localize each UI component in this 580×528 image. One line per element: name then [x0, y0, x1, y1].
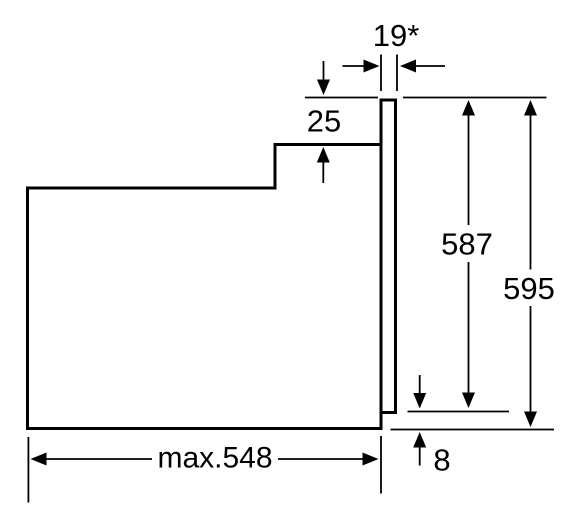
svg-text:25: 25 — [307, 104, 341, 139]
svg-text:max.548: max.548 — [157, 442, 272, 475]
svg-text:19*: 19* — [373, 18, 420, 53]
svg-text:587: 587 — [441, 227, 493, 262]
svg-text:8: 8 — [433, 443, 450, 478]
svg-text:595: 595 — [503, 271, 555, 306]
